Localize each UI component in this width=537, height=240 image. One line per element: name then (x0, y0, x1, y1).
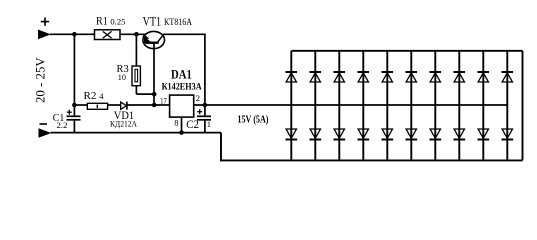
wire diode column 2 (314, 51, 316, 161)
diode VD1 (121, 102, 127, 109)
svg-text:DA1: DA1 (171, 67, 192, 82)
diode top column 10 (cathode up) (502, 72, 514, 82)
wire R2 left (74, 104, 87, 106)
diode bottom column 2 (cathode down) (310, 129, 322, 140)
svg-text:2.2: 2.2 (57, 120, 68, 130)
diode top column 3 (cathode up) (334, 72, 346, 82)
diode bottom column 7 (cathode down) (430, 129, 442, 140)
node junction base wire and pin17 wire (152, 103, 157, 108)
diode top column 8 (cathode up) (454, 72, 466, 82)
node junction pin8 bottom rail (179, 130, 184, 135)
svg-text:VT1: VT1 (143, 13, 162, 28)
resistor R2 (87, 103, 107, 109)
svg-text:8: 8 (174, 118, 178, 128)
wire left vertical from top rail (73, 34, 75, 116)
wire diode column 10 (506, 51, 508, 161)
diode top column 7 (cathode up) (430, 72, 442, 82)
terminal plus input (38, 30, 51, 40)
diode top column 4 (cathode up) (358, 72, 370, 82)
label minus polarity mark (40, 123, 48, 125)
label C2 plus polarity (197, 109, 202, 114)
wire diode column 8 (458, 51, 460, 161)
svg-text:1: 1 (207, 119, 211, 129)
diode bottom column 9 (cathode down) (478, 129, 490, 140)
wire R3 bottom jog to base line (136, 93, 154, 95)
svg-text:C2: C2 (186, 119, 199, 131)
resistor R3 (135, 34, 137, 66)
wire R2 to VD1 (108, 104, 121, 106)
svg-text:17: 17 (160, 96, 167, 106)
wire VD1 to pin 17 (127, 104, 170, 106)
transistor VT1 (143, 31, 165, 48)
wire diode column 1 (290, 51, 292, 161)
svg-text:10: 10 (118, 72, 126, 82)
label C1 plus polarity (67, 110, 72, 115)
svg-text:КД212А: КД212А (110, 118, 138, 128)
wire diode column 9 (482, 51, 484, 161)
svg-text:20 - 25V: 20 - 25V (33, 57, 48, 103)
wire bottom rail corner down (221, 133, 523, 161)
wire top rail left (50, 33, 147, 35)
node junction C1 branch top (72, 32, 77, 37)
wire diode column 5 (386, 51, 388, 161)
svg-text:15V (5A): 15V (5A) (237, 114, 268, 126)
svg-text:R1: R1 (96, 15, 108, 27)
diode bottom column 3 (cathode down) (334, 129, 346, 140)
diode bottom column 4 (cathode down) (358, 129, 370, 140)
diode bottom column 8 (cathode down) (454, 129, 466, 140)
svg-text:2: 2 (196, 93, 200, 103)
wire diode bank top rail (291, 50, 522, 52)
wire diode column 7 (434, 51, 436, 161)
capacitor C2 (197, 105, 211, 133)
op-amp DA1 regulator box (170, 95, 194, 117)
wire diode column 6 (410, 51, 412, 161)
wire VT1 base down (153, 43, 155, 105)
diode bottom column 10 (cathode down) (502, 129, 514, 140)
node junction base and R3 (152, 92, 157, 97)
diode bottom column 5 (cathode down) (382, 129, 394, 140)
svg-text:4: 4 (99, 91, 104, 101)
capacitor C1 (67, 116, 81, 133)
diode top column 6 (cathode up) (406, 72, 418, 82)
wire bottom rail (51, 132, 222, 134)
wire diode bank right border (522, 51, 524, 161)
wire vertical to pin 2 node (204, 34, 206, 105)
diode top column 5 (cathode up) (382, 72, 394, 82)
diode top column 9 (cathode up) (478, 72, 490, 82)
diode bottom column 1 (cathode down) (286, 129, 298, 140)
diode top column 2 (cathode up) (310, 72, 322, 82)
wire diode column 4 (362, 51, 364, 161)
wire top rail right (163, 33, 206, 35)
svg-text:К142ЕН3А: К142ЕН3А (162, 82, 202, 92)
wire pin 2 to output rail (194, 104, 508, 106)
diode top column 1 (cathode up) (286, 72, 298, 82)
svg-text:КТ816А: КТ816А (164, 18, 192, 28)
terminal minus input (39, 128, 52, 137)
node junction R2 wire left (72, 103, 77, 108)
diode bottom column 6 (cathode down) (406, 129, 418, 140)
node junction R3 branch top (134, 32, 139, 37)
node junction pin2 C2 output (203, 103, 208, 108)
svg-text:R2: R2 (84, 90, 97, 102)
wire diode column 3 (338, 51, 340, 161)
svg-text:0.25: 0.25 (110, 17, 125, 27)
label + polarity mark (41, 17, 49, 25)
wire pin 8 down (181, 117, 183, 133)
resistor R1 (95, 30, 121, 40)
